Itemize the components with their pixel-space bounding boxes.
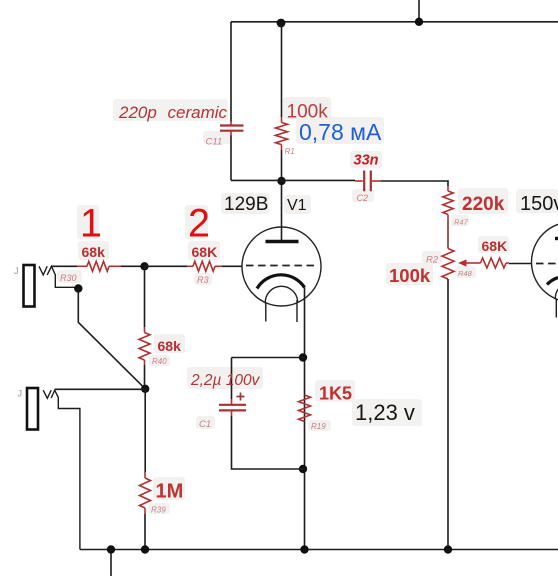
jack J2 tip contact <box>43 390 51 398</box>
resistor R47 220k <box>447 186 449 191</box>
node grid junction <box>140 262 148 270</box>
svg-text:R47: R47 <box>454 218 469 227</box>
svg-text:C2: C2 <box>357 193 369 203</box>
tube V1 anode bar <box>266 240 299 243</box>
svg-text:2: 2 <box>188 202 210 246</box>
svg-text:68K: 68K <box>192 244 218 260</box>
node anode row junction <box>277 177 285 185</box>
svg-text:C1: C1 <box>199 419 211 430</box>
jack J1 tip contact <box>39 266 47 275</box>
tube V1 envelope circle <box>242 227 321 306</box>
node J1 sleeve junction <box>74 284 82 292</box>
wire top supply rail <box>231 21 558 23</box>
svg-text:R19: R19 <box>311 422 326 431</box>
wire C11 branch vertical <box>230 22 232 122</box>
wire R48 to V2 grid <box>509 263 532 265</box>
svg-text:220p ceramic: 220p ceramic <box>118 103 228 122</box>
node rail cathode <box>300 545 308 553</box>
svg-text:R3: R3 <box>197 275 209 285</box>
svg-text:129В: 129В <box>224 194 268 215</box>
label background tint (jpeg artifact) <box>57 97 558 514</box>
tube V2 envelope circle (partial) <box>532 222 558 302</box>
wire pot R2 down to bottom rail <box>447 279 449 550</box>
node junction top plate branch <box>277 19 286 28</box>
svg-text:R39: R39 <box>151 506 166 515</box>
resistor R3 68K <box>187 265 193 267</box>
capacitor C2 33n <box>363 171 365 192</box>
jack J2 body <box>27 388 38 430</box>
svg-text:V1: V1 <box>287 197 307 214</box>
tube V2 grid dashed <box>536 263 558 265</box>
capacitor C11 220p <box>230 122 232 126</box>
wire between R47 and pot R2 <box>447 220 449 249</box>
svg-text:100k: 100k <box>389 265 431 286</box>
svg-text:68k: 68k <box>82 244 106 260</box>
wire bottom ground rail <box>80 549 558 551</box>
svg-text:R30: R30 <box>60 273 77 283</box>
wire grid node to R3 <box>145 265 188 267</box>
wire cathode V1 down to bottom rail <box>304 288 306 550</box>
node B junction (R40/1M/jack wires) <box>141 385 149 393</box>
svg-text:150v: 150v <box>520 193 558 215</box>
svg-text:220k: 220k <box>462 194 505 215</box>
resistor R19 1K5 <box>299 395 311 422</box>
plus sign of C1 <box>237 393 245 401</box>
svg-text:J: J <box>14 266 19 276</box>
svg-text:1M: 1M <box>156 481 184 503</box>
svg-text:1,23 v: 1,23 v <box>355 400 415 425</box>
svg-text:68k: 68k <box>158 338 182 354</box>
capacitor C1 2,2u <box>231 399 233 404</box>
resistor R30 68k <box>77 265 87 267</box>
tube V1 heater circle <box>265 286 297 303</box>
wire plate branch upper <box>281 22 283 117</box>
svg-text:2,2µ 100v: 2,2µ 100v <box>190 372 261 389</box>
resistor R1 100k <box>281 117 283 123</box>
svg-text:R1: R1 <box>285 147 295 156</box>
wire C1 bottom link <box>232 416 305 469</box>
wire anode row right of C2 <box>372 180 381 182</box>
tube V1 grid dashed <box>246 265 316 267</box>
jack J1 body <box>24 265 35 307</box>
wire R30 to grid node <box>121 265 145 267</box>
tube V2 heater leg <box>555 300 557 318</box>
svg-text:33n: 33n <box>354 153 379 169</box>
wire B+ drop from top edge <box>418 0 420 22</box>
node cathode bottom junction <box>299 465 307 473</box>
svg-text:1K5: 1K5 <box>319 384 352 404</box>
node rail stub <box>107 545 115 553</box>
wire plate branch lower + plate lead into V1 <box>281 150 283 242</box>
svg-text:1: 1 <box>80 202 102 246</box>
svg-text:68K: 68K <box>482 238 508 254</box>
tube V1 heater legs <box>265 304 267 322</box>
wire anode row left of C2 <box>231 179 355 181</box>
wire grid row from J1 to R30 <box>52 265 78 267</box>
svg-text:R2: R2 <box>426 255 439 266</box>
node rail 1M <box>141 545 149 553</box>
wire R3 to V1 grid <box>222 265 242 267</box>
node cathode top junction <box>299 353 307 361</box>
potentiometer R2 100k <box>442 249 454 280</box>
resistor R39 1M vertical <box>144 389 146 472</box>
svg-text:R48: R48 <box>458 269 473 278</box>
svg-text:0,78 мА: 0,78 мА <box>299 119 382 145</box>
wire J2 tip to node B <box>55 388 146 390</box>
svg-text:J: J <box>18 389 23 399</box>
svg-text:C11: C11 <box>206 137 223 148</box>
node rail right branch <box>444 545 452 553</box>
wire C1 top link <box>232 357 305 359</box>
resistor R48 68K <box>481 258 507 268</box>
resistor R40 68k vertical <box>144 266 146 327</box>
tube V2 anode bar <box>555 237 558 240</box>
wire J1 sleeve down and diagonal to node B <box>78 289 145 389</box>
tube V2 cathode arc <box>547 278 558 285</box>
tube V2 heater circle <box>555 282 558 299</box>
tube V1 cathode arc <box>257 275 305 289</box>
svg-text:R40: R40 <box>152 357 167 366</box>
node junction top B+ <box>415 18 423 26</box>
wiper arrow of R2 <box>466 262 481 264</box>
wire ground stub down <box>110 550 112 576</box>
